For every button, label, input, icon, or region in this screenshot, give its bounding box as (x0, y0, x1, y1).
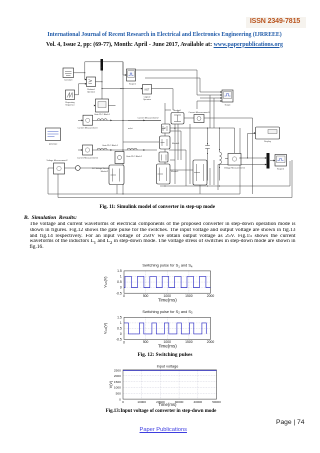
wire relational op out to mux1 (96, 67, 103, 82)
block Current Measurement3 (194, 115, 204, 123)
svg-text:Sequence: Sequence (65, 104, 75, 106)
block Diode tall (193, 160, 207, 185)
block Current Measurement4 (115, 152, 124, 164)
svg-text:Display: Display (264, 141, 272, 143)
svg-text:DC Voltage Source: DC Voltage Source (92, 167, 110, 170)
svg-text:Time(ms): Time(ms) (158, 343, 177, 348)
svg-text:500: 500 (143, 340, 149, 344)
capacitor C1 (205, 128, 210, 181)
caption fig 12 (10, 352, 320, 358)
wire long vertical bus x121 (122, 62, 124, 194)
chart 2 y tick labels (116, 316, 122, 342)
wire tall block bottoms (117, 168, 253, 194)
wire mosfet column vertical (164, 103, 166, 183)
wire bottom rail y197.5 (58, 160, 292, 198)
svg-text:0.5: 0.5 (117, 280, 122, 284)
icon repeating sequence saw (67, 93, 72, 98)
wire display feed (248, 134, 256, 159)
svg-text:500: 500 (143, 294, 149, 298)
wire dc source row (65, 167, 111, 169)
SIMULINK DIAGRAM (0, 55, 320, 208)
svg-text:1.5: 1.5 (117, 269, 122, 273)
wire current measurement2 row (78, 149, 157, 151)
block DC Voltage Source (75, 166, 80, 171)
chart 1 gridlines (124, 271, 211, 293)
block Logical Operator NOT (143, 85, 152, 95)
svg-text:1500: 1500 (114, 380, 121, 384)
footer link (7, 427, 320, 433)
svg-text:Input voltage: Input voltage (157, 364, 179, 368)
svg-text:Mosfet1: Mosfet1 (172, 142, 180, 145)
svg-text:Scope1: Scope1 (129, 84, 137, 86)
wire voltmeas1 feed (225, 128, 235, 159)
coil row2b (127, 148, 137, 150)
block Voltage Measurement2 (54, 163, 65, 174)
wire logical operator out (152, 89, 174, 110)
icon powergui text (48, 132, 59, 137)
wire to logical operator (102, 88, 143, 90)
svg-text:Time(ms): Time(ms) (158, 297, 177, 302)
chart 1 y tick labels (116, 269, 122, 295)
block Relational Operator (87, 77, 96, 87)
svg-text:VGS(V): VGS(V) (104, 276, 109, 287)
chart 3 frame (123, 370, 217, 399)
svg-text:powergui: powergui (49, 143, 58, 146)
junction dots (101, 88, 102, 89)
arrowheads at block inputs (85, 79, 87, 81)
wire constant to relational operator (74, 73, 87, 80)
wire scope bundle vertical (128, 70, 200, 95)
wire repeating sequence to relational operator (75, 84, 87, 95)
inductor L column (220, 128, 222, 181)
coil row1 (97, 119, 107, 121)
wire gate plc out (109, 105, 116, 107)
block Scope1 (127, 69, 136, 81)
svg-text:0: 0 (120, 332, 122, 336)
header line 2 (9, 42, 320, 48)
icon display inner (268, 130, 277, 134)
svg-text:Current Measurement3: Current Measurement3 (188, 111, 210, 114)
chart 2 frame (124, 317, 211, 339)
svg-text:1: 1 (120, 275, 122, 279)
svg-text:V(V): V(V) (109, 381, 113, 388)
svg-text:Scope: Scope (225, 105, 232, 107)
svg-text:NOT: NOT (145, 89, 150, 91)
block Mosfet3 (157, 164, 171, 184)
svg-text:50000: 50000 (212, 400, 221, 404)
wire relational out down to gate plc (102, 82, 121, 99)
wire gate bundle horizontals (169, 131, 193, 184)
wire current measurement1 row (78, 119, 161, 121)
wire bottom rail y186 (160, 161, 290, 186)
block Mosfet (162, 124, 171, 133)
svg-text:1.5: 1.5 (117, 316, 122, 320)
svg-text:Current Measurement: Current Measurement (78, 127, 98, 130)
svg-text:1000: 1000 (114, 386, 121, 390)
caption fig 13 (2, 409, 320, 414)
wire mux2 to scope2 (270, 160, 275, 162)
svg-text:Switching pulse for S1 and S4: Switching pulse for S1 and S4 (142, 264, 193, 269)
svg-text:0: 0 (119, 397, 121, 401)
svg-text:VGS(V): VGS(V) (104, 323, 109, 334)
icon scope2 screen (277, 156, 286, 163)
block Mosfet5 (159, 152, 168, 162)
chart 3 input voltage line (123, 370, 217, 372)
icon scope1 screen (128, 71, 135, 78)
svg-text:Mosfet4: Mosfet4 (173, 109, 181, 112)
block Constant (63, 68, 74, 78)
svg-text:2000: 2000 (207, 294, 215, 298)
svg-text:Voltage Measurement2: Voltage Measurement2 (46, 159, 68, 162)
svg-text:Mosfet2: Mosfet2 (101, 170, 109, 173)
svg-text:-0.5: -0.5 (116, 337, 122, 341)
chart 3 x tick labels (122, 400, 221, 404)
svg-text:40000: 40000 (193, 400, 202, 404)
svg-text:Gate PLC Block1: Gate PLC Block1 (102, 144, 119, 147)
svg-text:Current Measurement2: Current Measurement2 (137, 116, 159, 119)
svg-text:0: 0 (122, 400, 124, 404)
chart 2 x tick labels (123, 340, 214, 344)
block Scope multi-input (222, 90, 233, 102)
wire rail y128 (165, 127, 235, 129)
block Display (256, 127, 280, 139)
svg-text:Operator: Operator (87, 90, 95, 93)
svg-text:Operator: Operator (143, 98, 151, 101)
wire top rail to mosfet4 (165, 110, 194, 118)
coil row2a (97, 148, 107, 150)
svg-text:1500: 1500 (185, 340, 193, 344)
svg-text:0: 0 (123, 340, 125, 344)
mux2 bar (267, 153, 270, 169)
svg-text:0: 0 (120, 286, 122, 290)
icon scope screen (224, 92, 232, 99)
svg-text:Switching pulse for S2 and S3: Switching pulse for S2 and S3 (142, 310, 193, 315)
icon constant wave (65, 72, 72, 76)
svg-text:2000: 2000 (207, 340, 215, 344)
svg-text:0: 0 (123, 294, 125, 298)
block Current Measurement (83, 115, 93, 125)
wire mid horizontal y142 (123, 120, 161, 142)
charts container (0, 256, 320, 416)
svg-text:10000: 10000 (137, 400, 146, 404)
block Scope2 (275, 155, 287, 167)
wire voltmeas1 to mux2 (241, 157, 267, 159)
section heading (24, 215, 77, 221)
chart 2 gridlines (124, 317, 211, 339)
icon voltmeas circle (86, 118, 90, 122)
svg-text:2500: 2500 (114, 368, 121, 372)
ISSN badge (246, 17, 306, 28)
block Gate PLC Block1 subsystem (96, 99, 109, 112)
svg-text:-0.5: -0.5 (116, 291, 122, 295)
block Mosfet4 (171, 113, 184, 125)
wire scope 4-input feeds (197, 92, 222, 109)
caption fig 11 (0, 204, 320, 210)
wire mux1 out to scope1 (103, 62, 127, 75)
svg-text:Time(ms): Time(ms) (159, 402, 178, 407)
block Repeating Sequence (66, 90, 75, 100)
wire gate bundle verticals (175, 95, 214, 186)
svg-text:2000: 2000 (114, 374, 121, 378)
icon gate plc (98, 102, 106, 108)
wire mux1 input top (85, 62, 101, 73)
block Current Measurement1 (83, 145, 93, 155)
svg-text:Current Measurement1: Current Measurement1 (77, 157, 99, 160)
page number (276, 419, 305, 426)
icon mosfet internals (162, 126, 167, 131)
chart 1 x tick labels (123, 294, 214, 298)
svg-text:1500: 1500 (185, 294, 193, 298)
wire cm3 to rail (204, 118, 253, 168)
header line 1 (9, 32, 320, 38)
svg-text:Gate PLC Block2: Gate PLC Block2 (126, 155, 143, 158)
svg-text:Scope2: Scope2 (277, 169, 285, 171)
chart 2 waveform S2 S3 (124, 323, 206, 334)
svg-text:Voltage Measurement1: Voltage Measurement1 (224, 167, 246, 170)
icon relational operator (89, 80, 92, 84)
svg-text:Constant: Constant (64, 79, 73, 82)
svg-text:500: 500 (116, 392, 121, 396)
icon scope1 trace (129, 73, 134, 76)
block Mosfet2 tall (109, 165, 124, 185)
svg-text:Gate PLC Block1: Gate PLC Block1 (94, 113, 111, 116)
chart 3 y tick labels (114, 368, 121, 401)
svg-text:Mosfet3: Mosfet3 (171, 170, 179, 173)
chart 3 gridlines (123, 370, 217, 399)
wire bottom rail y194 (48, 128, 240, 194)
chart 1 frame (124, 271, 211, 293)
svg-text:0.5: 0.5 (117, 326, 122, 330)
mux1 bar (101, 59, 104, 71)
chart 1 waveform S1 S4 (124, 276, 211, 287)
block Mosfet1 (160, 136, 171, 149)
svg-text:1: 1 (120, 321, 122, 325)
wire mux2 second input (218, 165, 267, 191)
block Voltage Measurement1 (228, 154, 241, 166)
block powergui (46, 128, 61, 141)
paragraph (30, 222, 296, 250)
